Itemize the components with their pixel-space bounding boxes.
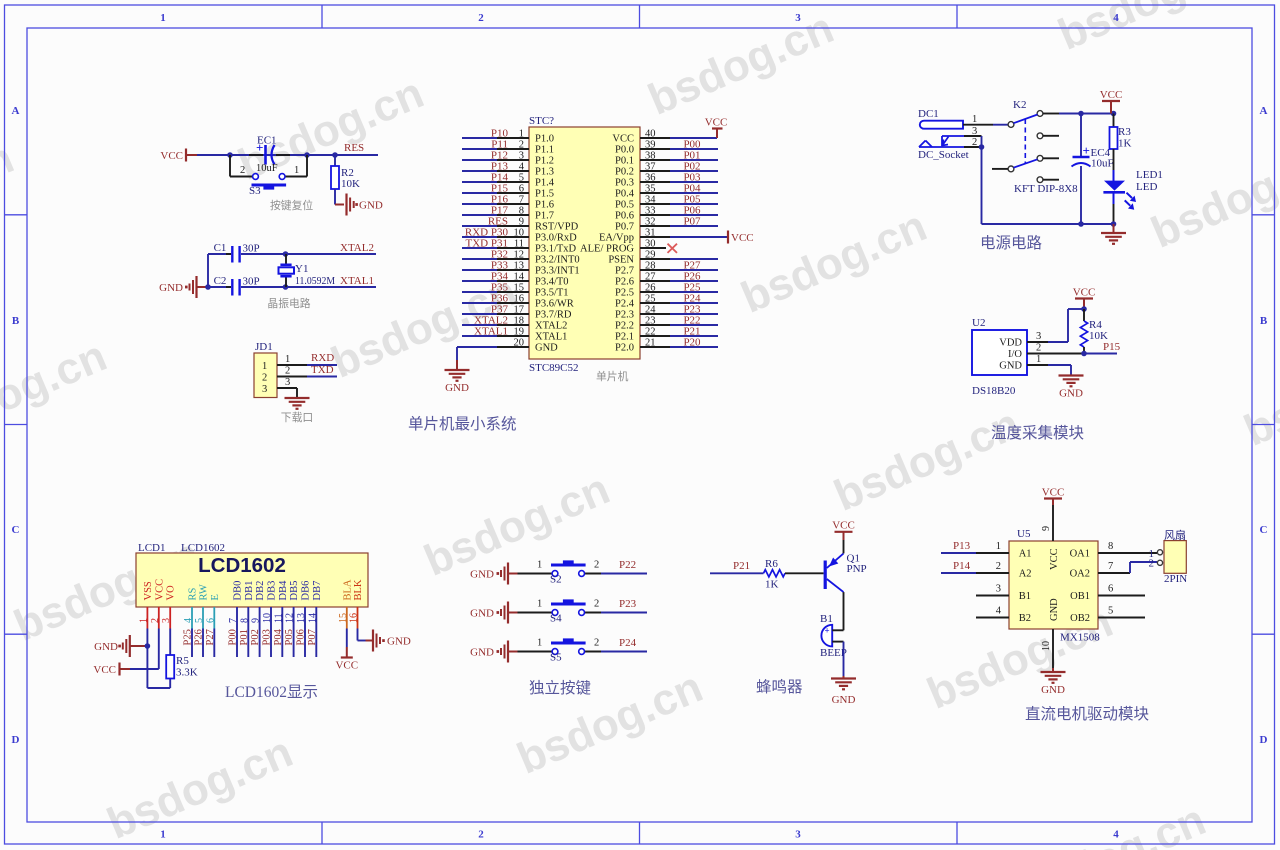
svg-text:VCC: VCC — [731, 232, 754, 244]
LCD pin1 wire to GND — [146, 629, 148, 647]
svg-text:LED1: LED1 — [1136, 169, 1163, 181]
switch S4 wiring — [518, 612, 553, 614]
svg-text:1: 1 — [537, 638, 542, 649]
wire P21 to R6 — [710, 572, 764, 574]
svg-text:GND: GND — [94, 641, 118, 653]
svg-text:P1.7: P1.7 — [535, 211, 554, 222]
power VCC (DS18B20) — [1075, 297, 1093, 299]
power VCC bar (LCD backlight) — [341, 656, 353, 658]
svg-text:风扇: 风扇 — [1164, 528, 1186, 542]
svg-text:GND: GND — [470, 569, 494, 581]
svg-text:A1: A1 — [1019, 549, 1032, 560]
svg-text:A: A — [1260, 105, 1268, 117]
capacitor EC4 10uF — [1080, 114, 1082, 157]
svg-text:直流电机驱动模块: 直流电机驱动模块 — [1025, 705, 1149, 723]
svg-text:Y1: Y1 — [295, 263, 308, 275]
node XTAL1 junction — [283, 284, 289, 290]
node junction left of EC1 — [227, 152, 233, 158]
switch S5 push-button — [552, 649, 558, 655]
svg-text:2: 2 — [262, 373, 267, 384]
svg-text:DB7: DB7 — [312, 581, 323, 601]
svg-text:3: 3 — [996, 584, 1001, 595]
svg-text:P3.2/INT0: P3.2/INT0 — [535, 255, 580, 266]
svg-text:16: 16 — [349, 613, 360, 623]
svg-text:2: 2 — [478, 12, 484, 24]
svg-text:LCD1602: LCD1602 — [181, 542, 225, 554]
svg-text:P01: P01 — [239, 629, 250, 645]
svg-text:S4: S4 — [550, 613, 562, 625]
svg-text:10: 10 — [262, 613, 273, 623]
svg-text:VDD: VDD — [999, 338, 1022, 349]
capacitor C2 30P — [208, 286, 231, 288]
svg-text:P0.3: P0.3 — [615, 178, 634, 189]
pin 1 wire RXD — [277, 364, 307, 366]
svg-text:VCC: VCC — [1042, 487, 1065, 499]
svg-text:2: 2 — [594, 638, 599, 649]
svg-text:P27: P27 — [205, 629, 216, 645]
svg-text:P15: P15 — [1103, 341, 1121, 353]
svg-text:7: 7 — [228, 618, 239, 623]
svg-text:4: 4 — [996, 606, 1002, 617]
svg-text:P2.7: P2.7 — [615, 266, 634, 277]
svg-text:30P: 30P — [243, 276, 260, 288]
svg-text:2: 2 — [150, 618, 161, 623]
svg-text:10uF: 10uF — [1091, 158, 1114, 170]
transistor Q1 PNP — [824, 561, 827, 590]
wire XTAL1 — [286, 286, 377, 288]
svg-text:9: 9 — [251, 618, 262, 623]
switch S2 push-button — [552, 571, 558, 577]
power VCC at MCU pin 40 — [716, 129, 718, 138]
svg-text:MX1508: MX1508 — [1060, 632, 1100, 644]
ground (MCU) — [445, 369, 470, 371]
node pin2 junction — [979, 144, 985, 150]
switch S5 wiring — [518, 651, 553, 653]
svg-text:PSEN: PSEN — [608, 255, 634, 266]
svg-text:P0.6: P0.6 — [615, 211, 634, 222]
svg-text:1: 1 — [138, 618, 149, 623]
svg-text:2: 2 — [1036, 343, 1041, 354]
svg-text:EA/Vpp: EA/Vpp — [599, 233, 634, 244]
svg-text:11: 11 — [273, 613, 284, 623]
ground (MX1508) — [1041, 671, 1066, 673]
svg-text:DB1: DB1 — [244, 581, 255, 601]
svg-text:P22: P22 — [619, 559, 636, 571]
resistor R5 3.3K — [166, 655, 174, 679]
svg-text:P3.0/RxD: P3.0/RxD — [535, 233, 577, 244]
LED LED1 — [1113, 149, 1115, 170]
svg-text:C: C — [1260, 524, 1268, 536]
LCD pin3 wire to R5 — [169, 629, 171, 656]
svg-text:+: + — [825, 626, 830, 636]
svg-text:P2.3: P2.3 — [615, 310, 634, 321]
svg-text:S5: S5 — [550, 652, 562, 664]
svg-text:1: 1 — [537, 599, 542, 610]
svg-text:GND: GND — [159, 282, 183, 294]
no-connect X at MCU pin 30 — [668, 244, 678, 253]
svg-text:P21: P21 — [733, 560, 750, 572]
svg-text:8: 8 — [1108, 541, 1113, 552]
svg-text:RXD: RXD — [311, 352, 334, 364]
svg-text:STC?: STC? — [529, 115, 554, 127]
svg-text:P00: P00 — [228, 629, 239, 645]
svg-text:3.3K: 3.3K — [176, 667, 198, 679]
LCD pin2 wire to VCC — [158, 629, 160, 670]
svg-text:11.0592M: 11.0592M — [295, 275, 335, 287]
capacitor EC1 10uF — [249, 154, 263, 156]
pin 2 wire TXD — [277, 376, 307, 378]
ground (JD1) — [285, 397, 310, 399]
svg-text:8: 8 — [239, 618, 250, 623]
svg-text:OA2: OA2 — [1070, 569, 1090, 580]
node junction R2 top — [332, 152, 338, 158]
svg-text:P26: P26 — [194, 629, 205, 645]
svg-text:C: C — [12, 524, 20, 536]
svg-text:B1: B1 — [820, 613, 833, 625]
svg-text:E: E — [210, 594, 221, 600]
svg-text:P02: P02 — [250, 629, 261, 645]
svg-text:DC1: DC1 — [918, 108, 939, 120]
node LCD GND junction — [145, 643, 151, 649]
resistor R3 1K — [1113, 114, 1115, 128]
power VCC (power circuit) — [1110, 102, 1112, 114]
svg-text:2: 2 — [996, 561, 1001, 572]
svg-text:P14: P14 — [953, 560, 971, 572]
svg-text:1K: 1K — [1118, 138, 1132, 150]
svg-text:C1: C1 — [214, 242, 227, 254]
svg-text:P07: P07 — [683, 216, 701, 228]
svg-text:VCC: VCC — [93, 664, 116, 676]
svg-text:P2.5: P2.5 — [615, 288, 634, 299]
svg-text:P0.1: P0.1 — [615, 156, 634, 167]
svg-text:3: 3 — [1036, 331, 1041, 342]
svg-text:VCC: VCC — [1100, 89, 1123, 101]
resistor R2 10K — [334, 155, 336, 166]
svg-text:P0.4: P0.4 — [615, 189, 635, 200]
svg-text:单片机: 单片机 — [596, 369, 629, 383]
svg-text:LCD1: LCD1 — [138, 542, 166, 554]
svg-text:下载口: 下载口 — [281, 411, 313, 424]
svg-text:+: + — [1083, 143, 1090, 158]
svg-text:VO: VO — [166, 585, 177, 601]
ground (LCD right) — [372, 630, 374, 652]
ground (buzzer) — [843, 676, 845, 679]
svg-text:B: B — [1260, 315, 1268, 327]
svg-text:9: 9 — [1041, 526, 1052, 531]
svg-text:P2.1: P2.1 — [615, 332, 634, 343]
svg-text:3: 3 — [285, 377, 290, 388]
MCU ground wire — [456, 347, 458, 360]
svg-text:P1.5: P1.5 — [535, 189, 554, 200]
svg-text:独立按键: 独立按键 — [529, 679, 591, 697]
svg-text:1: 1 — [160, 829, 166, 841]
svg-text:1: 1 — [996, 541, 1001, 552]
svg-text:4: 4 — [183, 618, 194, 623]
svg-text:VCC: VCC — [335, 660, 358, 672]
svg-text:P07: P07 — [307, 629, 318, 645]
svg-text:1: 1 — [972, 114, 977, 125]
svg-text:7: 7 — [1108, 561, 1113, 572]
svg-text:P13: P13 — [953, 540, 971, 552]
svg-text:单片机最小系统: 单片机最小系统 — [408, 415, 517, 433]
svg-text:P0.5: P0.5 — [615, 200, 634, 211]
svg-text:P3.3/INT1: P3.3/INT1 — [535, 266, 580, 277]
svg-text:XTAL1: XTAL1 — [535, 332, 567, 343]
switch S2 wiring — [518, 573, 553, 575]
svg-text:2: 2 — [478, 829, 484, 841]
svg-text:VCC: VCC — [832, 520, 855, 532]
svg-text:P0.2: P0.2 — [615, 167, 634, 178]
switch S3 push-button — [229, 155, 231, 177]
svg-text:12: 12 — [285, 613, 296, 623]
svg-text:DC_Socket: DC_Socket — [918, 149, 969, 161]
svg-text:4: 4 — [1113, 829, 1119, 841]
svg-text:VSS: VSS — [143, 581, 154, 600]
svg-text:P1.3: P1.3 — [535, 167, 554, 178]
svg-text:1: 1 — [1036, 354, 1041, 365]
node junction right of EC1 — [304, 152, 310, 158]
node XTAL2 junction — [283, 251, 289, 257]
svg-text:DB2: DB2 — [255, 581, 266, 601]
svg-text:VCC: VCC — [154, 579, 165, 601]
svg-text:A2: A2 — [1019, 569, 1032, 580]
svg-text:B: B — [12, 315, 20, 327]
ground (power circuit) — [1113, 224, 1115, 233]
svg-text:P3.1/TxD: P3.1/TxD — [535, 244, 577, 255]
svg-text:3: 3 — [262, 384, 267, 395]
ground (reset) — [345, 194, 347, 216]
svg-text:P06: P06 — [296, 629, 307, 645]
svg-text:C2: C2 — [214, 275, 227, 287]
svg-text:KFT DIP-8X8: KFT DIP-8X8 — [1014, 183, 1078, 195]
svg-text:R3: R3 — [1118, 126, 1131, 138]
svg-text:P1.4: P1.4 — [535, 178, 555, 189]
wire R6 to Q1 base — [785, 572, 824, 574]
wire K2 to VCC rail — [1043, 113, 1059, 115]
svg-text:P1.1: P1.1 — [535, 145, 554, 156]
svg-text:1: 1 — [537, 560, 542, 571]
svg-text:3: 3 — [161, 618, 172, 623]
capacitor C1 30P — [208, 253, 231, 255]
svg-text:P1.0: P1.0 — [535, 134, 554, 145]
svg-text:DB5: DB5 — [289, 581, 300, 601]
svg-text:P0.0: P0.0 — [615, 145, 634, 156]
wire P15 — [1084, 353, 1117, 355]
svg-text:VCC: VCC — [160, 150, 183, 162]
svg-text:P0.7: P0.7 — [615, 222, 634, 233]
svg-text:按键复位: 按键复位 — [270, 198, 313, 212]
svg-text:XTAL2: XTAL2 — [340, 242, 374, 254]
svg-text:DB3: DB3 — [267, 581, 278, 601]
node P15 junction — [1081, 351, 1087, 357]
node bottom LED — [1111, 221, 1117, 227]
LCD pin16 wire to GND — [357, 629, 359, 641]
svg-text:S2: S2 — [550, 574, 562, 586]
svg-text:P24: P24 — [619, 637, 637, 649]
svg-text:P2.2: P2.2 — [615, 321, 634, 332]
svg-text:P1.6: P1.6 — [535, 200, 554, 211]
ground (DS18B20) — [1059, 374, 1084, 376]
svg-text:6: 6 — [205, 618, 216, 623]
svg-text:2PIN: 2PIN — [1164, 573, 1187, 585]
wire crystal left rail — [207, 254, 209, 287]
svg-text:LCD1602: LCD1602 — [198, 554, 286, 577]
svg-text:3: 3 — [795, 12, 801, 24]
svg-text:B2: B2 — [1019, 613, 1031, 624]
svg-text:GND: GND — [535, 343, 558, 354]
svg-text:2: 2 — [240, 165, 245, 176]
svg-text:ALE/ PROG: ALE/ PROG — [580, 244, 634, 255]
svg-text:GND: GND — [359, 200, 383, 212]
resistor R6 1K — [764, 570, 786, 577]
svg-text:VCC: VCC — [1073, 287, 1096, 299]
svg-text:电源电路: 电源电路 — [980, 234, 1043, 252]
svg-text:P03: P03 — [262, 629, 273, 645]
svg-text:P05: P05 — [284, 629, 295, 645]
svg-text:1: 1 — [285, 354, 290, 365]
svg-text:PNP: PNP — [847, 563, 867, 575]
svg-text:OB1: OB1 — [1070, 591, 1090, 602]
svg-text:R6: R6 — [765, 558, 778, 570]
svg-text:蜂鸣器: 蜂鸣器 — [756, 678, 803, 696]
svg-text:LED: LED — [1136, 181, 1157, 193]
svg-text:GND: GND — [999, 361, 1022, 372]
node bottom EC4 — [1078, 221, 1084, 227]
svg-text:STC89C52: STC89C52 — [529, 362, 579, 374]
svg-text:+: + — [256, 140, 263, 155]
svg-text:P25: P25 — [183, 629, 194, 645]
svg-text:R5: R5 — [176, 655, 189, 667]
svg-text:U5: U5 — [1017, 528, 1031, 540]
svg-text:2: 2 — [1149, 558, 1155, 570]
svg-text:10: 10 — [1041, 641, 1052, 651]
svg-text:GND: GND — [1041, 684, 1065, 696]
svg-text:2: 2 — [285, 366, 290, 377]
node GND junction — [205, 284, 211, 290]
svg-text:OB2: OB2 — [1070, 613, 1090, 624]
power VCC (MX1508) — [1044, 497, 1062, 499]
svg-text:RW: RW — [199, 584, 210, 600]
svg-text:D: D — [1260, 734, 1268, 746]
svg-text:GND: GND — [470, 608, 494, 620]
VCC port at MCU pin 31 — [727, 231, 729, 244]
svg-text:30P: 30P — [243, 243, 260, 255]
svg-text:GND: GND — [1059, 388, 1083, 400]
power circuit bottom rail — [981, 147, 983, 224]
svg-text:GND: GND — [445, 382, 469, 394]
LCD pin15 wire to VCC — [346, 629, 348, 648]
svg-text:2: 2 — [594, 560, 599, 571]
svg-text:P3.5/T1: P3.5/T1 — [535, 288, 569, 299]
node R3 top — [1111, 111, 1117, 117]
svg-text:K2: K2 — [1013, 99, 1026, 111]
svg-text:LCD1602显示: LCD1602显示 — [225, 684, 318, 701]
svg-text:U2: U2 — [972, 317, 985, 329]
svg-text:13: 13 — [296, 613, 307, 623]
svg-text:P1.2: P1.2 — [535, 156, 554, 167]
svg-text:1K: 1K — [765, 579, 779, 591]
svg-text:DS18B20: DS18B20 — [972, 385, 1016, 397]
svg-text:4: 4 — [1113, 12, 1119, 24]
svg-text:P2.6: P2.6 — [615, 277, 634, 288]
svg-text:P20: P20 — [683, 337, 701, 349]
node EC4 top — [1078, 111, 1084, 117]
wire buzzer to GND — [843, 642, 845, 676]
svg-text:P3.4/T0: P3.4/T0 — [535, 277, 569, 288]
svg-text:BLA: BLA — [342, 579, 353, 600]
node R4 top — [1081, 306, 1087, 312]
svg-text:10K: 10K — [341, 178, 360, 190]
svg-text:XTAL2: XTAL2 — [535, 321, 567, 332]
svg-text:VCC: VCC — [1049, 548, 1060, 570]
svg-text:P3.7/RD: P3.7/RD — [535, 310, 572, 321]
svg-text:GND: GND — [387, 636, 411, 648]
wire VSS/R5 bottom loop — [146, 646, 148, 688]
svg-text:JD1: JD1 — [255, 341, 273, 353]
crystal Y1 11.0592M — [285, 254, 287, 264]
svg-text:P2.0: P2.0 — [615, 343, 634, 354]
svg-text:P2.4: P2.4 — [615, 299, 635, 310]
switch S4 push-button — [552, 610, 558, 616]
svg-text:S3: S3 — [249, 185, 261, 197]
svg-text:RES: RES — [344, 142, 364, 154]
svg-text:OA1: OA1 — [1070, 549, 1090, 560]
svg-text:XTAL1: XTAL1 — [474, 326, 508, 338]
svg-text:DB0: DB0 — [233, 581, 244, 601]
svg-text:15: 15 — [338, 613, 349, 623]
svg-text:DB6: DB6 — [301, 581, 312, 601]
svg-text:P3.6/WR: P3.6/WR — [535, 299, 574, 310]
svg-text:A: A — [12, 105, 20, 117]
svg-text:1: 1 — [262, 361, 267, 372]
resistor R4 10K — [1083, 309, 1085, 321]
pin 3 wire to ground — [277, 387, 297, 389]
svg-text:GND: GND — [1049, 598, 1060, 621]
wire VCC to RES — [197, 154, 378, 156]
svg-text:DB4: DB4 — [278, 580, 289, 601]
svg-text:5: 5 — [1108, 606, 1113, 617]
svg-text:BLK: BLK — [353, 579, 364, 600]
wire Q1 collector to buzzer — [843, 592, 845, 630]
svg-text:VCC: VCC — [612, 134, 634, 145]
svg-text:1: 1 — [160, 12, 166, 24]
svg-text:XTAL1: XTAL1 — [340, 275, 374, 287]
svg-text:10uF: 10uF — [256, 163, 278, 174]
svg-text:2: 2 — [594, 599, 599, 610]
svg-text:温度采集模块: 温度采集模块 — [991, 424, 1084, 442]
svg-text:晶振电路: 晶振电路 — [267, 296, 310, 310]
svg-text:RS: RS — [188, 587, 199, 600]
wire R2 to GND — [334, 189, 336, 205]
svg-text:P04: P04 — [273, 628, 284, 645]
svg-text:B1: B1 — [1019, 591, 1031, 602]
svg-text:I/O: I/O — [1008, 349, 1022, 360]
svg-text:5: 5 — [194, 618, 205, 623]
svg-text:GND: GND — [470, 647, 494, 659]
svg-text:14: 14 — [307, 613, 318, 623]
wire XTAL2 — [286, 253, 377, 255]
svg-text:D: D — [12, 734, 20, 746]
svg-text:VCC: VCC — [705, 117, 728, 129]
svg-text:3: 3 — [795, 829, 801, 841]
svg-text:RST/VPD: RST/VPD — [535, 222, 579, 233]
svg-text:P23: P23 — [619, 598, 637, 610]
svg-text:GND: GND — [832, 694, 856, 706]
svg-text:6: 6 — [1108, 584, 1113, 595]
svg-text:1: 1 — [294, 165, 299, 176]
svg-text:TXD: TXD — [311, 364, 334, 376]
